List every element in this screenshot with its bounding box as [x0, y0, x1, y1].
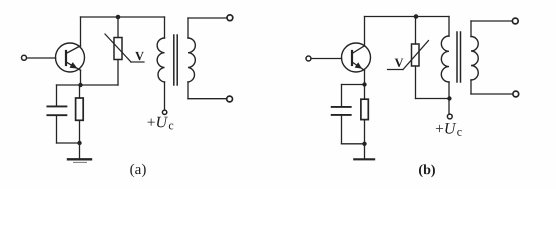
svg-text:+Uc: +Uc [147, 114, 174, 132]
svg-text:(b): (b) [418, 163, 435, 178]
svg-text:+Uc: +Uc [435, 121, 462, 139]
svg-text:V: V [394, 56, 403, 70]
svg-text:V: V [135, 49, 144, 63]
svg-text:(a): (a) [130, 162, 147, 178]
